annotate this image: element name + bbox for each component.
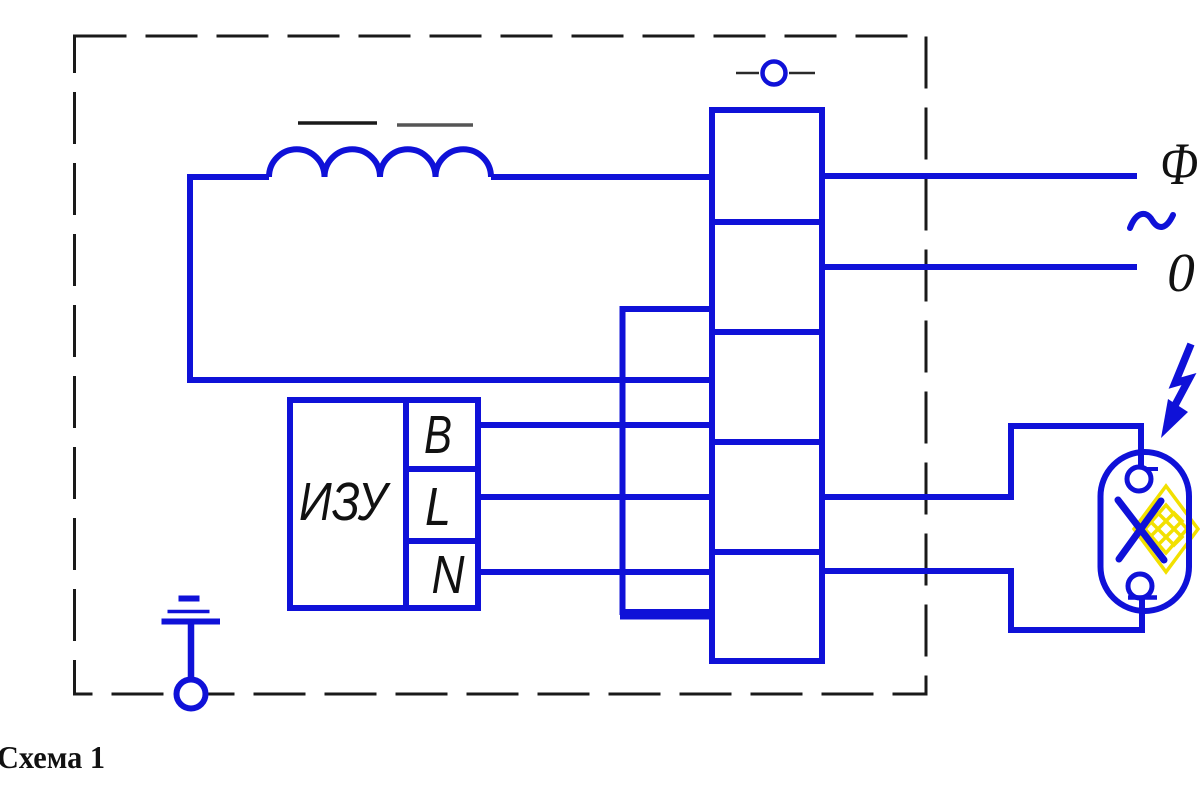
svg-text:ИЗУ: ИЗУ bbox=[299, 472, 391, 532]
ignition lightning arrow bbox=[1173, 344, 1191, 409]
svg-text:N: N bbox=[432, 545, 466, 605]
terminal block XT1 (5 cells) bbox=[712, 110, 822, 661]
lamp bottom electrode bbox=[1128, 574, 1152, 598]
lamp top electrode bbox=[1127, 467, 1151, 491]
terminal block XT2 (narrow, 4 cells) bbox=[620, 309, 712, 617]
wire: ИЗУ L to block bbox=[478, 494, 710, 500]
terminal circle leader line bbox=[736, 72, 815, 75]
lamp glow sparkle (yellow) bbox=[1134, 486, 1198, 572]
svg-text:В: В bbox=[424, 405, 452, 465]
wire: phase output from block to Ф terminal bbox=[824, 173, 1137, 179]
lamp top electrode tick bbox=[1147, 467, 1158, 471]
AC tilde symbol bbox=[1130, 214, 1173, 228]
svg-text:Схема 1: Схема 1 bbox=[0, 739, 105, 775]
inductor L1 (ballast choke) coil bbox=[269, 149, 491, 177]
svg-text:0: 0 bbox=[1167, 242, 1195, 303]
inductor core dash 1 bbox=[298, 121, 377, 125]
svg-text:L: L bbox=[425, 477, 451, 537]
terminal circle above block bbox=[763, 62, 786, 85]
wire: block to lamp bottom electrode bbox=[824, 571, 1142, 630]
wire: coil left lead down and along bottom to terminal block bbox=[190, 177, 710, 380]
dashed enclosure border (luminaire housing) bbox=[75, 36, 927, 694]
lamp bottom electrode bar bbox=[1128, 595, 1157, 600]
lamp EL1 bulb outline bbox=[1101, 452, 1190, 611]
inductor core dash 2 bbox=[397, 123, 473, 127]
wire: coil right lead to terminal block bbox=[491, 174, 710, 180]
ground symbol with terminal circle bbox=[162, 599, 221, 709]
wire: ИЗУ N to block bbox=[478, 569, 710, 575]
svg-text:Ф: Ф bbox=[1160, 131, 1198, 197]
lamp X cross bbox=[1118, 500, 1164, 560]
wire: block to lamp top electrode bbox=[824, 426, 1141, 497]
wire: ИЗУ B to block bbox=[478, 422, 710, 428]
wire: neutral output from block to 0 terminal bbox=[824, 264, 1137, 270]
ИЗУ ignition unit U1 box bbox=[290, 400, 478, 608]
